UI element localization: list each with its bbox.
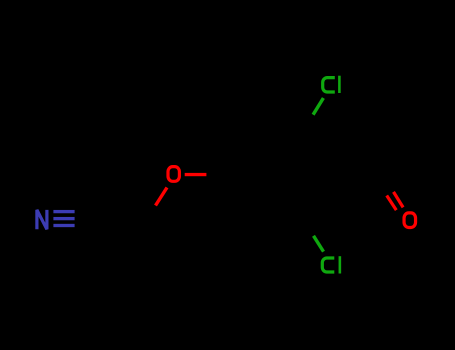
bond C5-Cl bottom (green half near Cl) xyxy=(314,236,324,252)
double bond C=O aldehyde, line 2 (red half) xyxy=(387,196,397,211)
bond O-C1 horizontal (red half near ether O) xyxy=(185,173,207,176)
bond C3-Cl top (green half near Cl) xyxy=(313,98,323,115)
atom label N (nitrile nitrogen) xyxy=(37,210,47,229)
atom label Cl (bottom chlorine) xyxy=(322,256,340,273)
bond CH2-O diagonal (red half near ether O) xyxy=(156,188,168,206)
double bond C=O aldehyde, line 1 (red half) xyxy=(394,192,404,208)
atom label O (ether oxygen) xyxy=(168,167,179,182)
atom label O (aldehyde oxygen) xyxy=(404,213,416,228)
atom label Cl (top chlorine) xyxy=(323,76,340,93)
triple bond N#C (blue half) xyxy=(53,210,74,227)
